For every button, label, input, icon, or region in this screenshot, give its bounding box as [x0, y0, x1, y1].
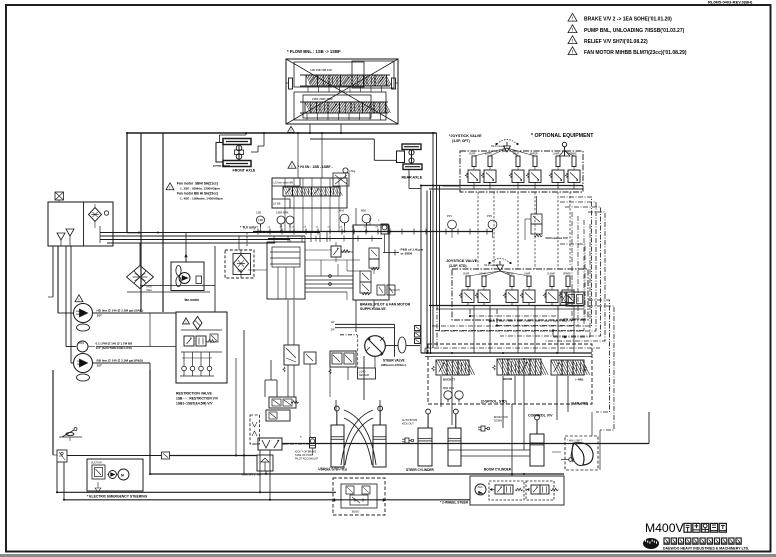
pilot line bundle 4	[545, 212, 605, 341]
svg-text:MA1: MA1	[339, 209, 345, 213]
supply valve small boxes	[377, 285, 385, 295]
svg-text:(3-SP, OPT): (3-SP, OPT)	[452, 139, 470, 143]
svg-text:pump: pump	[76, 313, 83, 316]
wire bottom 2	[150, 473, 564, 475]
joystick2 pilot vees	[468, 271, 500, 276]
gauge MB2 MA2	[444, 391, 452, 399]
pump P2	[77, 341, 88, 352]
svg-text:DAEWOO HEAVY INDUSTRIES & MACH: DAEWOO HEAVY INDUSTRIES & MACHINERY LTD.	[663, 547, 749, 551]
svg-text:SURF: SURF	[469, 154, 476, 156]
svg-text:1SB: 1SB	[238, 270, 243, 273]
pilot line bundle 1	[432, 197, 592, 326]
LS relief circle	[343, 168, 348, 173]
rg check box	[162, 452, 170, 459]
four in one bucket	[565, 436, 598, 470]
svg-text:CONTROL V/V: CONTROL V/V	[528, 414, 553, 418]
pilot inner nested	[560, 244, 585, 319]
port bus lower	[268, 238, 382, 240]
steering unit wires	[363, 356, 365, 400]
svg-text:* ELECTRIC EMERGENCY STEERING: * ELECTRIC EMERGENCY STEERING	[87, 495, 148, 499]
joystick2 extra box	[566, 292, 584, 306]
svg-text:pump drive: pump drive	[213, 164, 230, 168]
joystick2 boundary	[452, 269, 588, 320]
port boxes 3SB	[415, 326, 421, 331]
joystick1 boundary	[460, 151, 583, 192]
wire mid horizontal	[305, 279, 353, 281]
control valve drop wires	[440, 376, 442, 407]
wire bottom 1	[67, 455, 162, 457]
supply valve v1	[331, 246, 341, 257]
top box left port	[289, 78, 293, 89]
joystick1 valve cells	[472, 156, 476, 167]
svg-text:!: !	[185, 320, 186, 325]
top box lower valve bank	[305, 102, 317, 113]
svg-text:(3-SP, STD): (3-SP, STD)	[449, 264, 467, 268]
svg-text:BRAKE, PILOT & FAN MOTOR: BRAKE, PILOT & FAN MOTOR	[360, 303, 411, 307]
gauge MB1	[362, 214, 371, 223]
svg-text:1SBF 2SBF 3SBF: 1SBF 2SBF 3SBF	[312, 97, 333, 101]
svg-text:or 3SB6: or 3SB6	[401, 252, 413, 256]
svg-text:filter: filter	[147, 288, 152, 292]
revision note 3	[568, 36, 577, 44]
LS valve cluster box	[272, 178, 347, 208]
rear axle	[402, 144, 421, 150]
two wheel steer box	[470, 476, 564, 505]
svg-text:RESTRICTION VALVE: RESTRICTION VALVE	[176, 392, 213, 396]
cylinder steer	[418, 428, 432, 466]
svg-text:* 2-WHEEL STEER: * 2-WHEEL STEER	[440, 501, 469, 505]
svg-text:SUCTION: SUCTION	[91, 462, 102, 465]
svg-text:M: M	[121, 474, 124, 478]
wire left tall	[52, 370, 54, 455]
svg-text:FRONT AXLE: FRONT AXLE	[233, 169, 256, 173]
svg-text:1/2": 1/2"	[97, 364, 103, 368]
bundle inner verticals	[571, 212, 573, 321]
svg-text:1SB 2SB 3SB 4SB: 1SB 2SB 3SB 4SB	[310, 68, 332, 72]
svg-text:1SB: 1SB	[258, 218, 263, 222]
crossed hoses	[344, 410, 376, 465]
joystick pilot drops	[477, 192, 479, 269]
tank vent box	[55, 192, 64, 200]
bucket feed wires	[591, 412, 593, 436]
cylinder boom right	[530, 434, 544, 466]
brake drop wires	[259, 450, 261, 492]
svg-text:1. 2SE : 92Mda, 1300/63lpm: 1. 2SE : 92Mda, 1300/63lpm	[180, 187, 220, 191]
wire to rear axle	[310, 138, 374, 140]
pressure switch box	[57, 450, 67, 462]
oil cooler dashed box	[225, 250, 254, 278]
cylinder boom left	[448, 428, 461, 466]
load sensor box	[358, 368, 376, 379]
brake master valve	[258, 438, 282, 450]
supply valve v2	[369, 248, 379, 259]
svg-text:STEER VALVE: STEER VALVE	[383, 359, 405, 363]
svg-text:*JOYSTICK VALVE: *JOYSTICK VALVE	[449, 134, 482, 138]
warning triangle below top box	[288, 126, 295, 132]
svg-text:SURF: SURF	[463, 274, 470, 276]
svg-text:!: !	[78, 297, 79, 303]
brake pilot dash box	[250, 415, 260, 444]
top valve assembly box	[286, 59, 398, 124]
port bus upper	[253, 231, 392, 233]
cylinder tele right	[373, 425, 386, 467]
svg-text:RL0M5-0403-REV.0(BH): RL0M5-0403-REV.0(BH)	[708, 0, 753, 4]
steering pilot valves	[330, 351, 356, 367]
wire center verticals	[426, 191, 428, 354]
joystick1 lever A	[504, 146, 511, 152]
gauge PP1	[448, 220, 457, 229]
control valve group boom	[497, 359, 508, 375]
pump warning triangle	[75, 295, 83, 302]
svg-text:*: *	[300, 435, 302, 440]
pilot line bundle 5	[588, 300, 610, 412]
svg-text:pump: pump	[77, 363, 84, 366]
svg-text:BOOM: BOOM	[503, 377, 513, 381]
mid accumulator cluster	[284, 345, 299, 365]
svg-text:PP2: PP2	[487, 214, 492, 218]
svg-text:1SB: 1SB	[256, 211, 261, 215]
svg-text:STEER CYLINDER: STEER CYLINDER	[406, 468, 435, 472]
svg-text:1/2": 1/2"	[97, 314, 103, 318]
top box upper valve bank	[306, 75, 318, 86]
svg-text:* HI SN : 1SB - 1SBF -: * HI SN : 1SB - 1SBF -	[298, 165, 333, 169]
LS valve bank	[283, 187, 293, 196]
supply valve inner wires	[270, 251, 300, 253]
brake shuttle box	[257, 455, 273, 471]
tank outlet bundle	[100, 232, 320, 234]
return filter drain	[139, 286, 141, 289]
pilot line bundle 2	[437, 202, 596, 331]
svg-text:PILOT ACCUMULAT: PILOT ACCUMULAT	[295, 458, 319, 461]
restriction valve block	[176, 312, 227, 383]
joystick2 lever A	[497, 265, 504, 271]
return filter	[127, 266, 154, 289]
tank filter diamond	[89, 208, 102, 222]
gauge 1SBF pair	[277, 216, 285, 224]
wire gauge drops	[260, 224, 262, 232]
junction dots	[126, 132, 128, 134]
pilot accumulator	[381, 224, 388, 234]
joystick1 bus	[421, 185, 583, 187]
svg-text:3/4": 3/4"	[331, 328, 336, 332]
svg-text:0.1 LPM ∅ 140 ∅ 1.7M BB: 0.1 LPM ∅ 140 ∅ 1.7M BB	[96, 342, 134, 346]
svg-text:MB1: MB1	[361, 209, 367, 213]
wire LS cluster up	[297, 133, 299, 178]
svg-text:* TLV only: * TLV only	[240, 226, 256, 230]
supply valve v3	[360, 271, 371, 282]
svg-text:HD line ∅ 140 ∅ 2.5M gal (SAE): HD line ∅ 140 ∅ 2.5M gal (SAE)	[97, 309, 143, 313]
wire front axle feed	[219, 135, 221, 143]
svg-text:KICK OUT: KICK OUT	[402, 423, 414, 426]
svg-text:* 4IN-1 BKT: * 4IN-1 BKT	[567, 439, 582, 443]
daewoo logo	[643, 538, 659, 549]
svg-text:1SBF BRK: 1SBF BRK	[276, 211, 289, 215]
control valve group spare	[551, 360, 562, 375]
svg-text:JOYSTICK VALVE: JOYSTICK VALVE	[446, 259, 478, 263]
svg-text:PUMP BNL, UNLOADING 7IISSB('01: PUMP BNL, UNLOADING 7IISSB('01.03.27)	[584, 28, 685, 34]
svg-text:FAN reduce V/V: FAN reduce V/V	[546, 236, 568, 240]
svg-text:SPARE: SPARE	[563, 273, 571, 276]
svg-text:Fan motor SBHI SH(21cc): Fan motor SBHI SH(21cc)	[177, 182, 218, 186]
pilot line bundle 3	[500, 207, 601, 336]
hydraulic tank	[48, 202, 113, 246]
svg-text:1/2": 1/2"	[331, 320, 336, 324]
oil cooler filter	[234, 255, 249, 273]
supply valve wires	[305, 249, 331, 251]
restriction valve ports	[183, 352, 185, 366]
svg-text:CLAMP: CLAMP	[547, 273, 555, 276]
svg-text:+ 4IN1: + 4IN1	[575, 378, 584, 382]
svg-text:SUPPLY VALVE: SUPPLY VALVE	[360, 307, 386, 311]
svg-text:LS line valve BN: LS line valve BN	[274, 181, 294, 185]
cylinder tele left	[331, 425, 344, 467]
svg-text:LAMP: LAMP	[553, 153, 560, 156]
svg-text:N4-fm-Guard: N4-fm-Guard	[491, 145, 506, 148]
boom kick plug	[481, 426, 485, 431]
pilot reduce valve	[531, 214, 542, 224]
svg-text:* FLOW BNL : 1SB -> 1SBF: * FLOW BNL : 1SB -> 1SBF	[287, 49, 341, 54]
svg-text:REAR AXLE: REAR AXLE	[402, 176, 423, 180]
gauge MA1	[340, 214, 349, 223]
svg-text:P2M4: P2M4	[78, 343, 85, 345]
svg-text:*BRK B/V 1'' A/T: *BRK B/V 1'' A/T	[241, 473, 262, 477]
fan motor	[171, 262, 204, 291]
cylinder boom wires	[448, 449, 530, 451]
svg-text:FAN MOTOR MIHBB BLM7I(23cc)('0: FAN MOTOR MIHBB BLM7I(23cc)('01.08.29)	[584, 50, 687, 56]
svg-text:BB line ∅ 140 ∅ 2.5M gal (P&B): BB line ∅ 140 ∅ 2.5M gal (P&B)	[97, 359, 143, 363]
svg-text:BUCKET: BUCKET	[443, 378, 455, 382]
gauge 1SB	[257, 216, 265, 224]
svg-text:(3-SP, OPT): (3-SP, OPT)	[571, 402, 588, 406]
svg-text:BOOM CYLINDER: BOOM CYLINDER	[484, 468, 512, 472]
top box right port	[392, 78, 396, 89]
svg-text:(360cc/m-1500cc): (360cc/m-1500cc)	[381, 363, 406, 367]
joystick1 pilot vees	[474, 148, 507, 156]
svg-text:!: !	[290, 128, 291, 133]
steering unit	[335, 323, 395, 325]
emergency steering unit	[87, 459, 143, 491]
wire bottom 4	[64, 499, 470, 501]
svg-text:!: !	[291, 164, 292, 170]
supply valve left box	[267, 242, 305, 299]
wire top bus	[127, 132, 437, 134]
fan motor change note	[166, 183, 174, 190]
pump output wires	[93, 312, 177, 314]
pump P3	[74, 354, 93, 373]
svg-text:!: !	[169, 185, 170, 191]
svg-text:LS SB: LS SB	[273, 202, 281, 206]
svg-text:PP1: PP1	[447, 214, 452, 218]
svg-text:M400V: M400V	[645, 521, 684, 535]
top box drop line	[340, 124, 342, 133]
port bus extension	[391, 231, 493, 233]
joystick2 bus	[429, 305, 584, 307]
warning triangle LS	[288, 161, 296, 168]
svg-text:MB2 MA2: MB2 MA2	[443, 387, 455, 390]
gauge PP2	[488, 220, 497, 229]
control valve bus	[421, 352, 592, 354]
brake pilot valve stack	[269, 397, 296, 408]
suspension valve box	[333, 478, 385, 515]
revision note 4	[568, 47, 577, 55]
tank strainers	[57, 233, 65, 240]
pilot ladder	[436, 306, 438, 349]
steer column switch	[59, 436, 82, 438]
svg-text:Fan motor BB HI SH(23cc): Fan motor BB HI SH(23cc)	[177, 192, 218, 196]
LS right box	[333, 173, 349, 186]
pilot line bundle 6	[588, 306, 614, 430]
control valve dashed boundary	[428, 344, 592, 404]
kick out plug	[405, 438, 409, 443]
wire mid drop	[243, 330, 245, 474]
svg-text:BLKD: BLKD	[352, 510, 359, 514]
svg-text:* OPTIONAL EQUIPMENT: * OPTIONAL EQUIPMENT	[531, 133, 594, 139]
front axle	[223, 139, 251, 145]
revision note 1	[568, 13, 577, 21]
svg-text:4.5kg: 4.5kg	[349, 169, 356, 173]
wire bottom 3	[57, 491, 336, 493]
tank left bus	[52, 246, 54, 297]
svg-text:1SB1~1SB7(&4.5M) V/V: 1SB1~1SB7(&4.5M) V/V	[176, 402, 213, 406]
revision note 2	[568, 25, 577, 33]
svg-text:1SB - - : RESTRICTION V/V: 1SB - - : RESTRICTION V/V	[176, 397, 219, 401]
svg-text:fan motor: fan motor	[185, 298, 200, 302]
svg-text:1. 4SE : 10Madnt, 1450/60lpm: 1. 4SE : 10Madnt, 1450/60lpm	[180, 197, 223, 201]
svg-text:BRAKE V/V 2 -> 1EA SOHE('01.01: BRAKE V/V 2 -> 1EA SOHE('01.01.20)	[584, 17, 672, 23]
control valve group bucket	[436, 360, 447, 375]
tank down pipes	[57, 246, 59, 313]
bundle drop lines	[140, 133, 142, 312]
svg-text:DOWN: DOWN	[494, 420, 502, 423]
joystick1 lever B	[564, 147, 566, 156]
svg-text:RELIEF V/V SH7I('01.08.22): RELIEF V/V SH7I('01.08.22)	[584, 39, 648, 45]
joystick2 valve cells	[466, 276, 470, 287]
svg-text:N4-fm-Guard: N4-fm-Guard	[484, 264, 499, 267]
svg-text:* PEDAL CYL TLB & W: * PEDAL CYL TLB & W	[318, 467, 345, 471]
svg-text:4WS: 4WS	[478, 487, 483, 489]
daewoo korean name	[664, 538, 669, 544]
pump P1	[74, 304, 93, 323]
supply valve right box	[353, 225, 389, 300]
workport drops	[473, 306, 475, 354]
